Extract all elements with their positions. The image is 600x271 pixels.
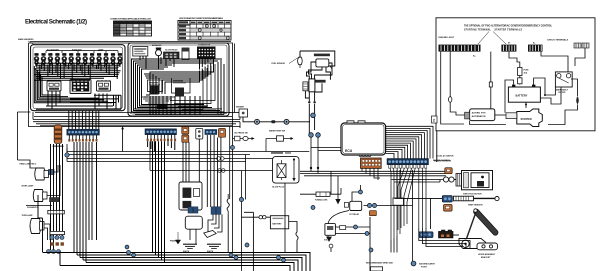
svg-text:SENDER: SENDER [236,107,245,109]
svg-text:HEAD LAMP HI/LO: HEAD LAMP HI/LO [20,163,37,166]
svg-text:LAMP: LAMP [98,49,104,52]
svg-text:GLOW PLUG: GLOW PLUG [272,187,285,189]
svg-text:WATER TEMP SW: WATER TEMP SW [269,130,285,133]
svg-text:ENGINE LIGHT: ENGINE LIGHT [439,37,455,39]
svg-text:EARTH: EARTH [207,250,214,253]
svg-text:CUT RELAY: CUT RELAY [349,213,360,216]
svg-text:EMERGENCY: EMERGENCY [556,89,569,91]
svg-text:GLOW RELAY: GLOW RELAY [165,49,178,52]
svg-text:STARTER: STARTER [521,118,532,121]
svg-text:B+: B+ [533,43,535,45]
svg-text:BATTERY: BATTERY [272,223,282,226]
svg-text:MACHINE EARTH: MACHINE EARTH [419,263,435,266]
svg-text:FLASHER R.: FLASHER R. [27,206,39,209]
svg-text:POINT: POINT [421,267,428,269]
svg-text:THE OPTIONAL OF TWO ALTERNATOR: THE OPTIONAL OF TWO ALTERNATOR/AC GENERA… [464,25,553,28]
svg-text:ALTERNATOR: ALTERNATOR [472,115,486,118]
svg-text:MAIN HARNESS: MAIN HARNESS [18,38,34,41]
svg-text:FUSIBLE LINK: FUSIBLE LINK [315,200,328,202]
svg-text:WORK LAMP: WORK LAMP [22,185,35,188]
svg-text:HOW TO READ THE CONNECTOR PIN: HOW TO READ THE CONNECTOR PIN NUMBER TAB… [179,17,224,20]
svg-text:EARTH: EARTH [183,250,190,253]
svg-text:STARTING TERMINAL STARTER T: STARTING TERMINAL STARTER TERMINALS [464,29,522,32]
svg-text:THROTTLE MOTOR: THROTTLE MOTOR [463,193,482,195]
svg-text:ACCEL ACTUATOR: ACCEL ACTUATOR [436,155,454,158]
svg-text:TURN LAMP: TURN LAMP [22,214,34,217]
svg-text:OIL PRESS SW: OIL PRESS SW [234,132,248,134]
svg-text:ALTERN. FITS: ALTERN. FITS [472,112,487,115]
svg-text:CONNECTOR: CONNECTOR [198,45,211,47]
svg-text:RECOMMENDED WIRE SIZE: RECOMMENDED WIRE SIZE [366,263,394,265]
svg-text:FRAME: FRAME [170,240,177,243]
svg-text:BREAKER: BREAKER [152,44,162,47]
svg-text:CUTOFF: CUTOFF [558,92,566,94]
svg-text:ENGINE HARNESS: ENGINE HARNESS [434,160,452,163]
svg-text:CHECK TERMINALS: CHECK TERMINALS [547,39,569,42]
svg-text:CONNECTOR TABLE APPLICABLE SYM: CONNECTOR TABLE APPLICABLE SYMBOL LIST [110,18,152,21]
svg-text:BRACKET: BRACKET [481,256,491,259]
svg-text:ACCESSORY: ACCESSORY [47,49,60,52]
svg-text:LEVER ASSEMBLY: LEVER ASSEMBLY [478,253,496,256]
svg-text:FUSE: FUSE [524,70,530,72]
svg-text:ECU: ECU [345,149,353,153]
svg-text:TEMP SENSOR: TEMP SENSOR [468,205,483,207]
svg-text:Electrical Schematic (1/2): Electrical Schematic (1/2) [25,19,87,26]
svg-text:BATTERY: BATTERY [516,93,528,97]
svg-text:FUEL SENSOR: FUEL SENSOR [272,63,286,65]
